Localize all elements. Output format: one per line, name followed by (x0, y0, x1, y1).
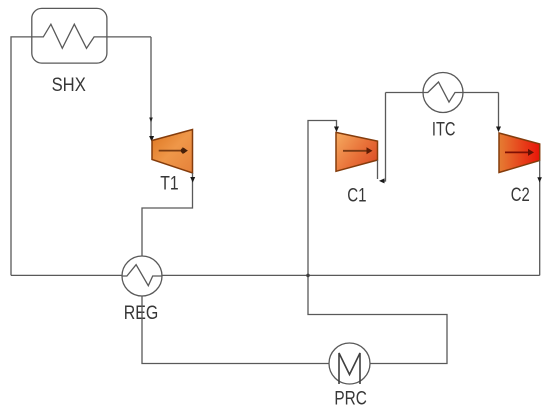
wire: SHX top line with left drop (11, 24, 151, 275)
wire: ITC right leg to C2 inlet (498, 93, 500, 130)
svg-text:ITC: ITC (432, 120, 456, 141)
precooler PRC (329, 343, 370, 384)
T1 flow arrow (159, 150, 182, 152)
arrowhead mid T1 inlet (149, 118, 153, 123)
PRC motor M glyph (339, 353, 360, 384)
wire: C2 outlet down to REG line (539, 161, 541, 276)
svg-text:SHX: SHX (52, 75, 86, 96)
svg-text:REG: REG (124, 303, 159, 324)
wire: PRC right loop up to C1 inlet (308, 121, 447, 364)
wire: REG bottom to PRC (142, 296, 329, 364)
arrowhead at T1 inlet (149, 136, 154, 142)
wire: C1 outlet stub (377, 160, 379, 179)
wire: SHX to T1 inlet (150, 37, 152, 138)
svg-text:T1: T1 (160, 173, 178, 194)
turbine T1 (152, 130, 193, 174)
junction dot (306, 274, 310, 278)
arrowhead at C2 inlet (496, 127, 501, 133)
wire: ITC left leg to C1 (381, 93, 386, 182)
arrowhead on T1 outlet (190, 177, 195, 183)
svg-text:C1: C1 (347, 185, 366, 206)
compressor C2 (499, 133, 540, 173)
svg-text:C2: C2 (511, 185, 530, 206)
arrowhead pointing left at C1 outlet (379, 178, 385, 183)
arrowhead on C2 outlet (537, 177, 542, 182)
arrowhead at C1 inlet (334, 127, 339, 133)
wire: T1 outlet to REG top (142, 173, 193, 256)
heat exchanger SHX box (32, 8, 107, 63)
wire: REG horizontal main line (11, 274, 122, 276)
intercooler ITC (423, 73, 463, 113)
regenerator REG (122, 256, 162, 296)
C1 flow arrow (343, 150, 367, 152)
compressor C1 (336, 132, 378, 171)
wire: ITC horizontal segments (386, 92, 424, 94)
C2 flow arrow (505, 151, 529, 153)
svg-text:PRC: PRC (334, 389, 367, 410)
